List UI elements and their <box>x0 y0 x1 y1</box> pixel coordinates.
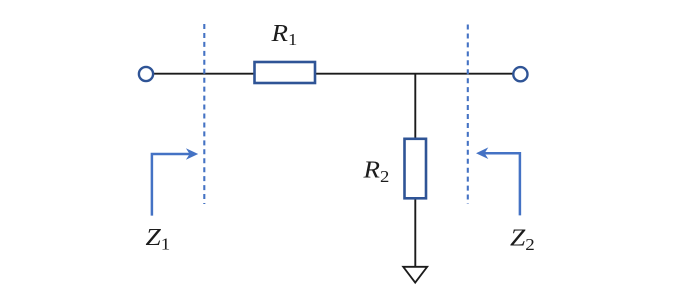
wire: junction down to R2 <box>414 74 416 139</box>
reference plane 1 (dashed line, left) <box>203 24 205 204</box>
wire: R2 to ground <box>414 199 416 267</box>
wire: R1 to right terminal <box>316 73 514 75</box>
terminal (output port, right) <box>513 67 527 81</box>
reference plane 2 (dashed line, right) <box>467 25 469 205</box>
wire: left terminal to R1 <box>153 73 254 75</box>
arrow Z1 (looking-in impedance, left) <box>152 148 198 215</box>
svg-text:R2: R2 <box>362 156 389 186</box>
svg-text:Z1: Z1 <box>146 224 171 254</box>
svg-text:R1: R1 <box>270 19 297 49</box>
arrow Z2 (looking-back impedance, right) <box>476 147 520 215</box>
terminal (input port, left) <box>139 67 153 81</box>
resistor R2 (shunt) <box>405 139 427 199</box>
ground <box>403 267 427 283</box>
resistor R1 (series) <box>255 62 316 83</box>
svg-text:Z2: Z2 <box>510 224 535 254</box>
